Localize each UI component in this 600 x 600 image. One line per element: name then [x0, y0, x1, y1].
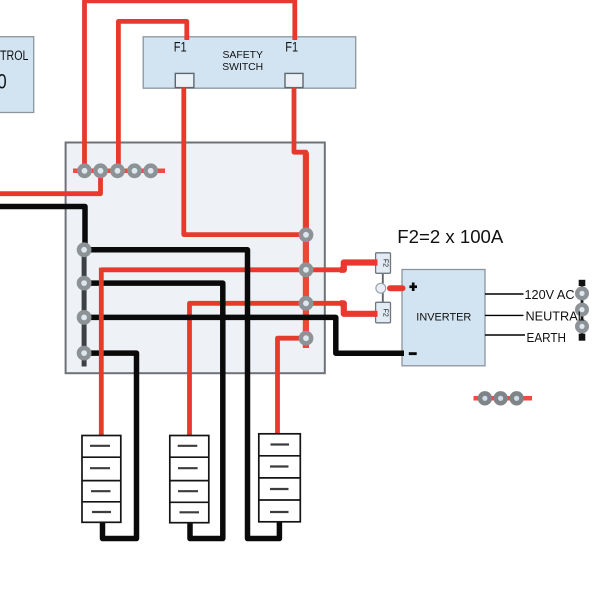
svg-text:SAFETY: SAFETY — [222, 50, 262, 61]
svg-text:SWITCH: SWITCH — [222, 62, 263, 73]
svg-text:EARTH: EARTH — [527, 331, 567, 345]
svg-text:F2=2 x 100A: F2=2 x 100A — [397, 227, 503, 248]
svg-text:INVERTER: INVERTER — [416, 312, 471, 324]
svg-text:NEUTRAL: NEUTRAL — [526, 309, 585, 323]
svg-text:F2: F2 — [382, 259, 389, 267]
svg-text:F1: F1 — [285, 39, 298, 55]
svg-text:F1: F1 — [174, 39, 187, 55]
svg-text:0: 0 — [0, 71, 7, 94]
svg-text:F2: F2 — [382, 309, 389, 317]
svg-text:CONTROL: CONTROL — [0, 48, 29, 63]
svg-text:120V AC: 120V AC — [525, 288, 575, 302]
